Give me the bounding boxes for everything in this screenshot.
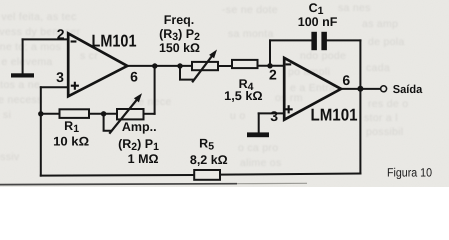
svg-text:2: 2 [269,66,277,82]
svg-text:1 MΩ: 1 MΩ [128,152,159,166]
svg-text:3: 3 [56,69,64,85]
svg-text:150 kΩ: 150 kΩ [159,41,200,55]
svg-text:LM101: LM101 [92,31,137,50]
svg-text:6: 6 [342,72,350,88]
svg-text:8,2 kΩ: 8,2 kΩ [190,153,228,167]
svg-text:R1: R1 [64,119,79,135]
svg-text:Saída: Saída [393,84,423,96]
svg-text:2: 2 [57,26,65,42]
svg-text:1,5 kΩ: 1,5 kΩ [224,89,263,103]
svg-text:R5: R5 [199,137,214,153]
svg-text:3: 3 [270,108,278,124]
svg-text:100 nF: 100 nF [298,15,338,29]
svg-text:6: 6 [130,68,138,84]
svg-text:(R2) P1: (R2) P1 [118,137,159,153]
svg-text:Freq.: Freq. [164,13,195,27]
svg-text:LM101: LM101 [311,106,358,125]
svg-text:Figura 10: Figura 10 [387,166,432,180]
svg-text:10 kΩ: 10 kΩ [53,134,89,148]
svg-text:Amp..: Amp.. [122,120,157,134]
